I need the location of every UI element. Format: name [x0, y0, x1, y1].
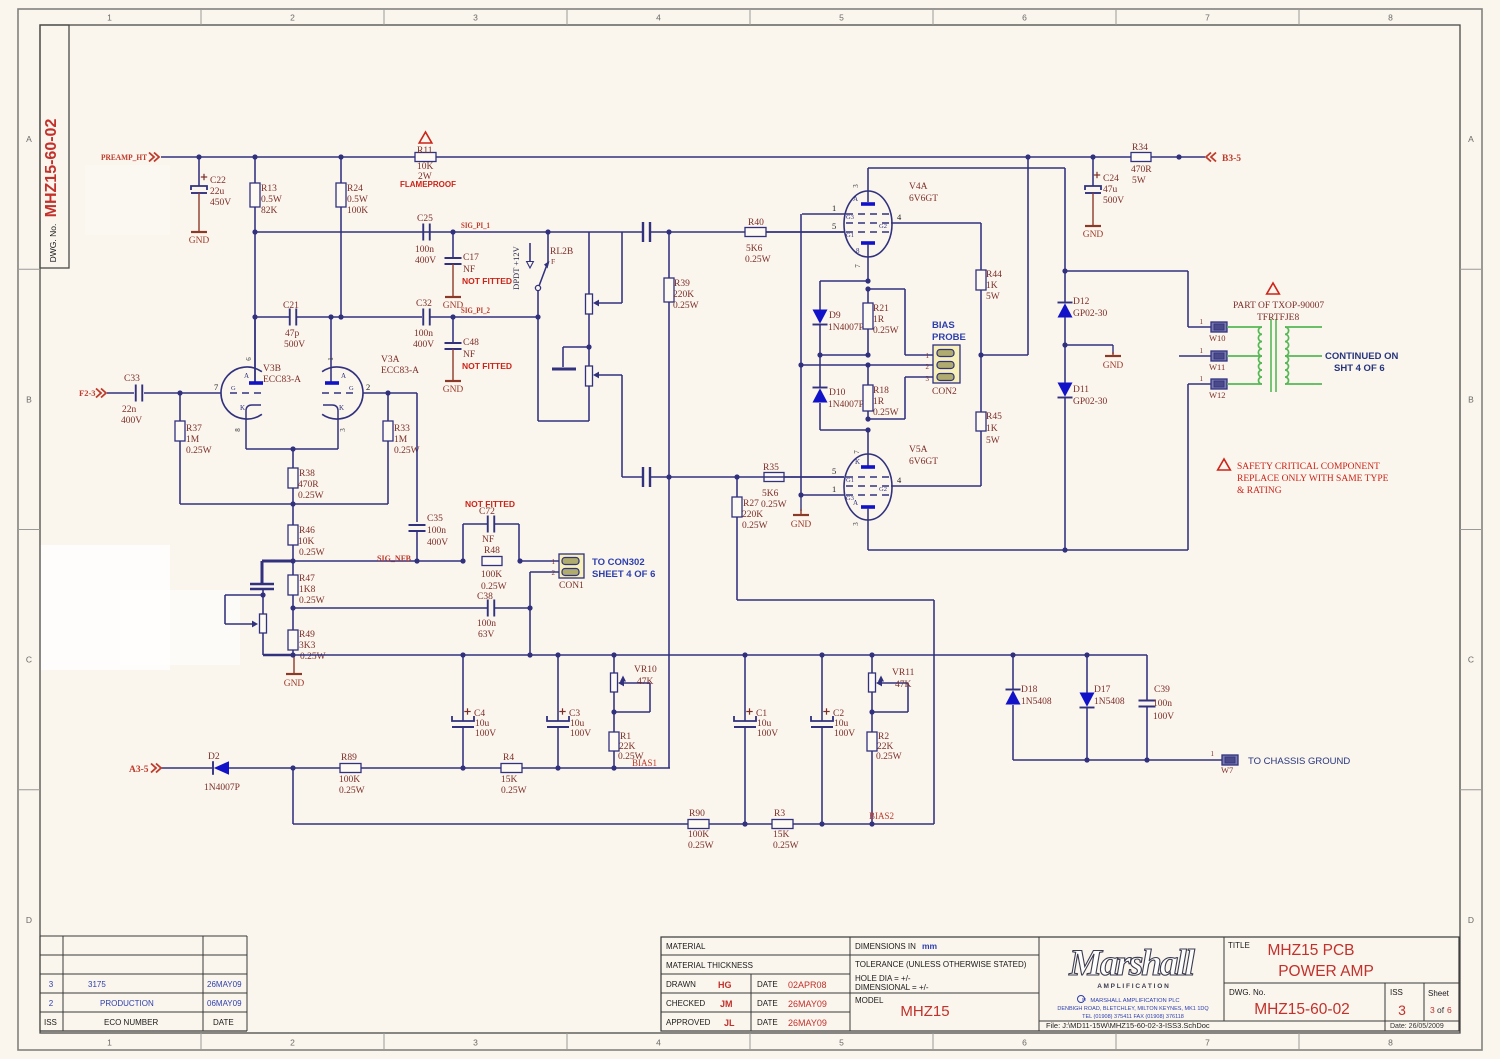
svg-text:K: K [240, 404, 245, 412]
svg-text:5K6: 5K6 [746, 244, 763, 254]
svg-text:22n: 22n [122, 405, 137, 415]
svg-text:PROBE: PROBE [932, 332, 966, 343]
svg-text:3K3: 3K3 [299, 641, 316, 651]
svg-text:470R: 470R [298, 480, 319, 490]
svg-text:3175: 3175 [88, 980, 106, 989]
svg-text:7: 7 [853, 450, 861, 454]
svg-text:10u: 10u [757, 719, 772, 729]
svg-text:0.25W: 0.25W [876, 752, 902, 762]
svg-text:2: 2 [49, 999, 54, 1008]
svg-text:MHZ15: MHZ15 [900, 1003, 949, 1020]
svg-text:V3A: V3A [381, 355, 400, 365]
svg-text:100V: 100V [834, 729, 855, 739]
svg-text:Sheet: Sheet [1428, 989, 1450, 998]
svg-text:R21: R21 [873, 304, 889, 314]
svg-text:NOT FITTED: NOT FITTED [462, 361, 512, 371]
svg-text:63V: 63V [478, 630, 495, 640]
svg-text:1: 1 [107, 1038, 112, 1048]
svg-text:22u: 22u [210, 187, 225, 197]
svg-text:0.25W: 0.25W [742, 521, 768, 531]
svg-text:15K: 15K [501, 775, 518, 785]
svg-text:DATE: DATE [757, 1018, 778, 1027]
svg-text:47K: 47K [637, 677, 654, 687]
svg-text:1: 1 [926, 352, 930, 360]
svg-text:2: 2 [552, 569, 556, 577]
svg-text:3: 3 [1430, 1005, 1435, 1015]
svg-text:220K: 220K [742, 510, 763, 520]
svg-text:SHT 4 OF 6: SHT 4 OF 6 [1334, 363, 1385, 374]
svg-text:GND: GND [1103, 361, 1124, 371]
svg-text:D2: D2 [208, 752, 220, 762]
svg-text:R46: R46 [299, 526, 315, 536]
svg-text:1K: 1K [986, 424, 998, 434]
svg-text:7: 7 [214, 382, 218, 392]
svg-text:1: 1 [327, 357, 335, 361]
svg-text:File: J:\MD11-15W\MHZ15-60-02: File: J:\MD11-15W\MHZ15-60-02-3-ISS3.Sch… [1046, 1021, 1210, 1030]
svg-text:GND: GND [189, 236, 210, 246]
svg-text:A M P L I F I C A T I O N: A M P L I F I C A T I O N [1097, 983, 1169, 990]
svg-text:G1: G1 [846, 477, 854, 484]
svg-text:GND: GND [284, 679, 305, 689]
svg-text:0.25W: 0.25W [873, 408, 899, 418]
svg-text:500V: 500V [284, 340, 305, 350]
svg-text:3: 3 [473, 13, 478, 23]
svg-text:5: 5 [839, 13, 844, 23]
svg-text:NF: NF [463, 265, 475, 275]
svg-text:DPDT +12V: DPDT +12V [511, 245, 521, 289]
svg-text:R35: R35 [763, 463, 779, 473]
svg-text:V4A: V4A [909, 182, 928, 192]
svg-text:6V6GT: 6V6GT [909, 457, 938, 467]
svg-text:82K: 82K [261, 206, 278, 216]
svg-text:ECO NUMBER: ECO NUMBER [104, 1018, 158, 1027]
svg-text:PART OF TXOP-90007: PART OF TXOP-90007 [1233, 301, 1324, 311]
svg-text:0.5W: 0.5W [261, 195, 282, 205]
svg-text:R24: R24 [347, 184, 363, 194]
svg-text:4: 4 [656, 1038, 661, 1048]
svg-text:6: 6 [1447, 1005, 1452, 1015]
svg-text:A: A [341, 372, 346, 380]
svg-text:220K: 220K [673, 290, 694, 300]
svg-text:ECC83-A: ECC83-A [263, 375, 301, 385]
svg-text:R34: R34 [1132, 143, 1148, 153]
svg-text:10u: 10u [570, 719, 585, 729]
svg-text:5: 5 [832, 466, 836, 476]
svg-text:8: 8 [1388, 1038, 1393, 1048]
svg-text:6: 6 [1022, 1038, 1027, 1048]
svg-text:A3-5: A3-5 [129, 765, 149, 775]
svg-text:8: 8 [856, 247, 860, 255]
svg-text:470R: 470R [1131, 165, 1152, 175]
svg-text:0.25W: 0.25W [299, 596, 325, 606]
svg-text:A: A [26, 134, 32, 144]
svg-text:1: 1 [832, 484, 836, 494]
svg-text:0.25W: 0.25W [481, 582, 507, 592]
svg-text:1: 1 [1200, 318, 1204, 326]
svg-text:FLAMEPROOF: FLAMEPROOF [400, 180, 456, 189]
svg-text:R33: R33 [394, 424, 410, 434]
svg-text:0.25W: 0.25W [745, 255, 771, 265]
svg-text:C24: C24 [1103, 174, 1119, 184]
svg-text:B: B [26, 394, 32, 404]
svg-text:47u: 47u [1103, 185, 1118, 195]
svg-text:100K: 100K [347, 206, 368, 216]
svg-text:R11: R11 [417, 146, 433, 156]
svg-text:8: 8 [234, 428, 242, 432]
svg-text:GND: GND [791, 520, 812, 530]
svg-text:MHZ15 PCB: MHZ15 PCB [1268, 942, 1355, 959]
svg-text:0.25W: 0.25W [688, 841, 714, 851]
svg-text:SIG_PI_1: SIG_PI_1 [461, 220, 490, 230]
svg-text:1: 1 [832, 203, 836, 213]
svg-text:R13: R13 [261, 184, 277, 194]
svg-text:PREAMP_HT: PREAMP_HT [101, 152, 147, 162]
svg-text:2: 2 [926, 363, 930, 371]
svg-text:R37: R37 [186, 424, 202, 434]
svg-text:R45: R45 [986, 412, 1002, 422]
svg-text:DWG. No.: DWG. No. [48, 224, 58, 263]
svg-text:1M: 1M [186, 435, 200, 445]
svg-text:0.25W: 0.25W [186, 446, 212, 456]
svg-text:C32: C32 [416, 299, 432, 309]
svg-text:B: B [1468, 394, 1474, 404]
svg-text:1N5408: 1N5408 [1094, 697, 1125, 707]
svg-text:10K: 10K [298, 537, 315, 547]
svg-text:C48: C48 [463, 338, 479, 348]
svg-text:6: 6 [1022, 13, 1027, 23]
svg-text:0.25W: 0.25W [394, 446, 420, 456]
svg-text:MATERIAL: MATERIAL [666, 942, 706, 951]
svg-text:D9: D9 [829, 311, 841, 321]
svg-text:D: D [26, 915, 32, 925]
svg-text:100V: 100V [475, 729, 496, 739]
svg-text:SAFETY CRITICAL COMPONENT: SAFETY CRITICAL COMPONENT [1237, 462, 1380, 472]
svg-text:ECC83-A: ECC83-A [381, 366, 419, 376]
svg-text:3: 3 [852, 522, 860, 526]
svg-text:26MAY09: 26MAY09 [788, 1018, 827, 1028]
svg-text:1: 1 [1200, 375, 1204, 383]
svg-text:450V: 450V [210, 198, 231, 208]
svg-text:7: 7 [854, 264, 862, 268]
svg-text:100n: 100n [415, 245, 434, 255]
svg-text:SHEET 4 OF 6: SHEET 4 OF 6 [592, 569, 655, 580]
svg-text:APPROVED: APPROVED [666, 1018, 711, 1027]
svg-text:1M: 1M [394, 435, 408, 445]
svg-text:400V: 400V [413, 340, 434, 350]
svg-text:R47: R47 [299, 574, 315, 584]
svg-text:R4: R4 [503, 753, 514, 763]
svg-text:C: C [26, 655, 32, 665]
svg-text:HG: HG [718, 980, 732, 990]
svg-text:3: 3 [926, 375, 930, 383]
svg-text:5W: 5W [986, 292, 1000, 302]
svg-text:1R: 1R [873, 315, 885, 325]
svg-text:NF: NF [482, 535, 494, 545]
svg-text:6: 6 [245, 357, 253, 361]
svg-text:2: 2 [366, 382, 370, 392]
svg-text:400V: 400V [427, 538, 448, 548]
svg-text:100n: 100n [427, 526, 446, 536]
svg-text:3: 3 [49, 980, 54, 989]
svg-text:VR11: VR11 [892, 668, 915, 678]
svg-text:CON2: CON2 [932, 387, 957, 397]
svg-text:2: 2 [290, 13, 295, 23]
svg-text:3: 3 [1398, 1002, 1406, 1018]
svg-text:1: 1 [552, 558, 556, 566]
svg-text:1K: 1K [986, 281, 998, 291]
svg-text:MHZ15-60-02: MHZ15-60-02 [43, 119, 60, 218]
svg-text:Date: 26/05/2009: Date: 26/05/2009 [1390, 1023, 1444, 1030]
svg-text:1: 1 [107, 13, 112, 23]
svg-text:CONTINUED ON: CONTINUED ON [1325, 351, 1399, 362]
svg-text:JM: JM [720, 999, 733, 1009]
svg-text:100V: 100V [1153, 712, 1174, 722]
svg-text:NF: NF [463, 350, 475, 360]
svg-text:CON1: CON1 [559, 581, 584, 591]
svg-text:PRODUCTION: PRODUCTION [100, 999, 154, 1008]
svg-text:C21: C21 [283, 301, 299, 311]
svg-text:GP02-30: GP02-30 [1073, 397, 1108, 407]
svg-text:0.25W: 0.25W [673, 301, 699, 311]
svg-text:C38: C38 [477, 592, 493, 602]
svg-text:5W: 5W [986, 436, 1000, 446]
svg-text:C1: C1 [756, 709, 767, 719]
svg-text:W10: W10 [1209, 333, 1226, 343]
svg-text:26MAY09: 26MAY09 [788, 999, 827, 1009]
svg-text:4: 4 [656, 13, 661, 23]
svg-text:R2: R2 [878, 732, 889, 742]
svg-text:NOT FITTED: NOT FITTED [462, 276, 512, 286]
svg-text:K: K [339, 404, 344, 412]
svg-text:ISS: ISS [44, 1018, 57, 1027]
svg-text:D18: D18 [1021, 685, 1038, 695]
svg-text:10K: 10K [417, 162, 434, 172]
svg-text:TO CON302: TO CON302 [592, 557, 645, 568]
svg-text:F: F [551, 257, 555, 266]
svg-text:R39: R39 [674, 279, 690, 289]
svg-text:C25: C25 [417, 214, 433, 224]
svg-text:8: 8 [1388, 13, 1393, 23]
svg-text:1: 1 [1200, 347, 1204, 355]
svg-text:MATERIAL THICKNESS: MATERIAL THICKNESS [666, 961, 753, 970]
svg-text:GND: GND [443, 385, 464, 395]
svg-text:1N4007P: 1N4007P [828, 400, 864, 410]
svg-text:15K: 15K [773, 830, 790, 840]
svg-text:of: of [1437, 1005, 1445, 1015]
svg-text:10u: 10u [834, 719, 849, 729]
svg-text:0.25W: 0.25W [501, 786, 527, 796]
svg-text:TOLERANCE (UNLESS OTHERWISE ST: TOLERANCE (UNLESS OTHERWISE STATED) [855, 960, 1027, 969]
svg-text:500V: 500V [1103, 196, 1124, 206]
svg-text:M: M [1082, 997, 1086, 1002]
svg-text:22K: 22K [877, 742, 894, 752]
svg-text:& RATING: & RATING [1237, 486, 1282, 496]
svg-text:3: 3 [339, 428, 347, 432]
svg-text:G3: G3 [846, 214, 854, 221]
svg-text:6V6GT: 6V6GT [909, 194, 938, 204]
svg-text:5K6: 5K6 [762, 489, 779, 499]
svg-text:C33: C33 [124, 374, 140, 384]
svg-text:3: 3 [852, 184, 860, 188]
svg-text:0.25W: 0.25W [299, 548, 325, 558]
svg-text:C3: C3 [569, 709, 580, 719]
svg-text:C2: C2 [833, 709, 844, 719]
svg-text:Marshall: Marshall [1068, 943, 1196, 984]
svg-text:R49: R49 [299, 630, 315, 640]
svg-text:REPLACE ONLY WITH SAME TYPE: REPLACE ONLY WITH SAME TYPE [1237, 474, 1389, 484]
svg-text:D: D [1468, 915, 1474, 925]
svg-text:A: A [853, 499, 858, 507]
svg-text:06MAY09: 06MAY09 [207, 999, 242, 1008]
svg-text:GP02-30: GP02-30 [1073, 309, 1108, 319]
svg-text:A: A [244, 372, 249, 380]
svg-text:400V: 400V [415, 256, 436, 266]
svg-text:BIAS: BIAS [932, 320, 955, 331]
svg-text:1N4007P: 1N4007P [204, 783, 240, 793]
svg-text:R90: R90 [689, 809, 705, 819]
svg-text:V3B: V3B [263, 364, 281, 374]
svg-text:C72: C72 [479, 507, 495, 517]
svg-text:100K: 100K [481, 570, 502, 580]
svg-text:1R: 1R [873, 397, 885, 407]
svg-text:W11: W11 [1209, 362, 1225, 372]
svg-text:R48: R48 [484, 546, 500, 556]
svg-text:22K: 22K [619, 742, 636, 752]
svg-text:100K: 100K [688, 830, 709, 840]
svg-text:5: 5 [839, 1038, 844, 1048]
svg-text:SIG_NFB: SIG_NFB [377, 553, 411, 563]
svg-text:G1: G1 [846, 232, 854, 239]
svg-text:0.25W: 0.25W [873, 326, 899, 336]
svg-text:D12: D12 [1073, 297, 1090, 307]
svg-text:7: 7 [1205, 1038, 1210, 1048]
svg-text:C: C [1468, 655, 1474, 665]
svg-text:0.5W: 0.5W [347, 195, 368, 205]
svg-text:100V: 100V [757, 729, 778, 739]
svg-text:TEL (01908) 375411 FAX (01908): TEL (01908) 375411 FAX (01908) 376118 [1082, 1014, 1184, 1020]
svg-text:C17: C17 [463, 253, 479, 263]
svg-text:A: A [853, 195, 858, 203]
svg-text:R3: R3 [774, 809, 785, 819]
svg-text:47p: 47p [285, 329, 300, 339]
svg-text:B3-5: B3-5 [1222, 154, 1241, 164]
svg-text:2: 2 [290, 1038, 295, 1048]
svg-text:0.25W: 0.25W [773, 841, 799, 851]
svg-text:7: 7 [1205, 13, 1210, 23]
svg-text:JL: JL [724, 1018, 735, 1028]
svg-text:DWG. No.: DWG. No. [1229, 988, 1265, 997]
svg-text:C39: C39 [1154, 685, 1170, 695]
svg-text:D10: D10 [829, 388, 846, 398]
svg-text:POWER AMP: POWER AMP [1278, 963, 1374, 980]
svg-text:MODEL: MODEL [855, 996, 884, 1005]
svg-text:K: K [855, 458, 860, 466]
svg-text:0.25W: 0.25W [761, 500, 787, 510]
svg-text:DIMENSIONAL = +/-: DIMENSIONAL = +/- [855, 983, 929, 992]
svg-text:R27: R27 [743, 499, 759, 509]
svg-text:TITLE: TITLE [1228, 941, 1250, 950]
svg-text:V5A: V5A [909, 445, 928, 455]
svg-text:26MAY09: 26MAY09 [207, 980, 242, 989]
svg-text:A: A [1468, 134, 1474, 144]
svg-text:W7: W7 [1221, 765, 1233, 775]
svg-text:1: 1 [1211, 750, 1215, 758]
svg-text:1N5408: 1N5408 [1021, 697, 1052, 707]
svg-text:100n: 100n [477, 619, 496, 629]
svg-text:R89: R89 [341, 753, 357, 763]
svg-text:100n: 100n [414, 329, 433, 339]
svg-text:DIMENSIONS IN: DIMENSIONS IN [855, 942, 916, 951]
svg-text:TFRTFJE8: TFRTFJE8 [1257, 313, 1299, 323]
svg-text:mm: mm [922, 941, 938, 951]
svg-text:ISS: ISS [1390, 988, 1403, 997]
svg-text:0.25W: 0.25W [339, 786, 365, 796]
svg-text:DATE: DATE [757, 980, 778, 989]
svg-text:100n: 100n [1153, 699, 1172, 709]
svg-text:F2-3: F2-3 [79, 388, 96, 398]
svg-text:W12: W12 [1209, 390, 1226, 400]
svg-text:R40: R40 [748, 218, 764, 228]
svg-text:BIAS2: BIAS2 [869, 811, 894, 821]
svg-text:0.25W: 0.25W [298, 491, 324, 501]
svg-text:SIG_PI_2: SIG_PI_2 [461, 305, 490, 315]
svg-text:10u: 10u [475, 719, 490, 729]
svg-text:0.25W: 0.25W [300, 652, 326, 662]
svg-text:R44: R44 [986, 270, 1002, 280]
svg-text:02APR08: 02APR08 [788, 980, 827, 990]
svg-text:R1: R1 [620, 732, 631, 742]
svg-text:MHZ15-60-02: MHZ15-60-02 [1254, 1001, 1350, 1018]
svg-text:TO CHASSIS GROUND: TO CHASSIS GROUND [1248, 756, 1350, 767]
svg-text:100V: 100V [570, 729, 591, 739]
svg-text:VR10: VR10 [634, 665, 657, 675]
svg-text:1K8: 1K8 [299, 585, 316, 595]
svg-text:R18: R18 [873, 386, 889, 396]
svg-text:G2: G2 [879, 486, 887, 493]
svg-text:DATE: DATE [757, 999, 778, 1008]
svg-text:GND: GND [1083, 230, 1104, 240]
svg-text:DRAWN: DRAWN [666, 980, 696, 989]
svg-text:5W: 5W [1132, 176, 1146, 186]
svg-text:C22: C22 [210, 176, 226, 186]
svg-text:R38: R38 [299, 469, 315, 479]
svg-text:400V: 400V [121, 416, 142, 426]
svg-text:3: 3 [473, 1038, 478, 1048]
svg-text:RL2B: RL2B [550, 247, 573, 257]
svg-text:G: G [349, 385, 354, 392]
svg-text:D17: D17 [1094, 685, 1111, 695]
svg-text:BIAS1: BIAS1 [632, 758, 657, 768]
svg-text:1N4007P: 1N4007P [828, 323, 864, 333]
svg-text:G2: G2 [879, 223, 887, 230]
svg-text:C4: C4 [474, 709, 485, 719]
svg-text:C35: C35 [427, 514, 443, 524]
svg-text:47K: 47K [895, 680, 912, 690]
svg-text:DATE: DATE [213, 1018, 234, 1027]
svg-text:HOLE DIA = +/-: HOLE DIA = +/- [855, 974, 911, 983]
svg-text:DENBIGH ROAD, BLETCHLEY, MILTO: DENBIGH ROAD, BLETCHLEY, MILTON KEYNES, … [1057, 1006, 1209, 1012]
svg-text:CHECKED: CHECKED [666, 999, 705, 1008]
svg-text:5: 5 [832, 221, 836, 231]
svg-text:MARSHALL AMPLIFICATION PLC: MARSHALL AMPLIFICATION PLC [1090, 998, 1179, 1004]
svg-text:G: G [231, 385, 236, 392]
svg-text:D11: D11 [1073, 385, 1089, 395]
svg-text:100K: 100K [339, 775, 360, 785]
